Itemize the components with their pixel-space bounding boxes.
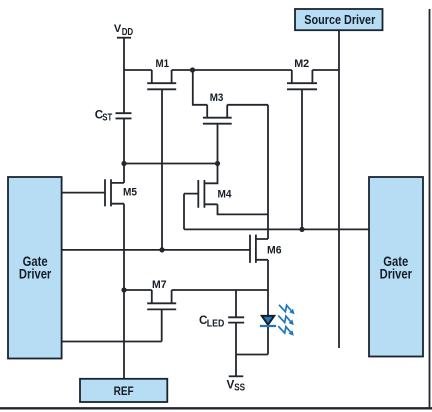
wire cathode row (236, 354, 268, 356)
transistor M6 (62, 235, 269, 263)
wire M2 source to source-driver line (312, 69, 339, 71)
box REF (80, 379, 167, 402)
box Source Driver (295, 9, 383, 30)
svg-text:M1: M1 (156, 58, 170, 70)
svg-text:M4: M4 (218, 189, 233, 201)
wire CLED top lead (235, 290, 237, 317)
svg-text:M6: M6 (267, 245, 282, 257)
transistor M7 (147, 290, 176, 342)
figure right border (429, 9, 431, 409)
arrow 1 (279, 305, 295, 315)
wire M4 gate down (183, 194, 185, 230)
svg-text:M7: M7 (152, 279, 167, 291)
svg-text:M3: M3 (210, 92, 224, 104)
svg-text:REF: REF (114, 385, 134, 398)
box Gate Driver left (8, 177, 62, 359)
wire CST bottom to M5 drain (123, 118, 125, 182)
wire anode row (M7 to LED) (124, 289, 268, 291)
svg-text:M5: M5 (123, 187, 137, 199)
VSS terminal bar (229, 375, 244, 377)
arrow 3 (278, 326, 294, 336)
svg-text:V: V (114, 23, 122, 35)
svg-text:ST: ST (102, 113, 112, 124)
LED emission arrows (278, 305, 294, 336)
node storage (CST/M5) (121, 161, 126, 166)
node M3 gate / M4 drain (215, 161, 220, 166)
wire M7 gate to gate driver (62, 341, 162, 343)
node M2 gate junction (299, 227, 304, 232)
node REF trunk / M7 (121, 287, 126, 292)
wire M4 source jog (218, 204, 269, 214)
wire M5 source down to REF (123, 204, 125, 379)
node M1 source / M3 drain (190, 67, 195, 72)
wire VDD row to M1 drain (124, 69, 152, 71)
svg-text:LED: LED (207, 319, 225, 330)
wire VDD trunk (123, 38, 125, 114)
wire storage node line (124, 163, 218, 165)
svg-text:DD: DD (122, 27, 134, 38)
transistor M2 (287, 70, 317, 229)
wire CLED bottom lead to VSS (235, 323, 237, 376)
figure bottom border (0, 407, 432, 409)
wire M3 source right then down (227, 105, 268, 239)
svg-text:Driver: Driver (19, 267, 52, 282)
transistor M5 (62, 179, 125, 206)
capacitor CLED (228, 317, 244, 322)
transistor M3 (203, 105, 232, 164)
node M1 gate / M6 gate (159, 247, 164, 252)
wire M1 source to M2 drain (172, 69, 292, 71)
LED diode D1 (260, 316, 276, 326)
svg-text:SS: SS (234, 383, 245, 394)
transistor M1 (147, 70, 176, 250)
box Gate Driver right (369, 177, 423, 357)
wire source driver column (338, 30, 340, 348)
transistor M4 (184, 164, 218, 208)
VDD terminal bar (117, 37, 131, 39)
wire scan row 2 (M4/M2 gates to right gate driver) (184, 228, 369, 230)
svg-text:Driver: Driver (380, 267, 413, 282)
svg-text:M2: M2 (294, 58, 309, 70)
capacitor CST (116, 113, 132, 118)
wire M6 source down (267, 260, 269, 355)
svg-text:Source Driver: Source Driver (304, 12, 375, 27)
arrow 2 (278, 316, 294, 326)
wire node down to M3 drain (193, 70, 207, 105)
